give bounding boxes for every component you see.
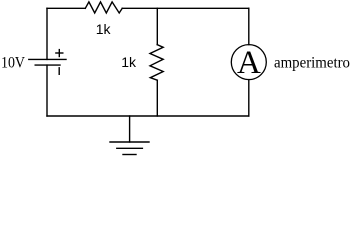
wire right lower (ammeter to bottom corner)	[248, 80, 250, 116]
ground bar 3	[123, 154, 136, 156]
wire right upper (top corner to ammeter)	[248, 8, 250, 44]
wire left lower (battery to bottom corner)	[46, 65, 48, 116]
ammeter A1 circle	[231, 45, 266, 80]
ground stub	[129, 116, 131, 142]
battery V1 positive plate	[29, 58, 66, 60]
resistor R1 1k horizontal	[85, 2, 122, 13]
svg-text:1k: 1k	[96, 21, 112, 37]
svg-text:1k: 1k	[121, 54, 137, 70]
wire top-right segment	[122, 7, 249, 9]
wire middle branch upper	[156, 8, 158, 44]
battery minus mark	[58, 68, 60, 75]
svg-text:10V: 10V	[1, 55, 25, 72]
ground bar 1	[110, 141, 149, 143]
battery plus sign	[56, 50, 63, 57]
svg-text:A: A	[237, 45, 261, 81]
wire left upper (top corner to battery)	[46, 8, 48, 59]
resistor R2 1k vertical	[150, 45, 163, 81]
wire bottom	[47, 115, 249, 117]
svg-text:amperimetro: amperimetro	[274, 54, 350, 71]
ground bar 2	[117, 147, 143, 149]
wire top-left segment	[47, 7, 85, 9]
battery V1 negative plate	[35, 64, 60, 66]
wire middle branch lower	[156, 80, 158, 116]
